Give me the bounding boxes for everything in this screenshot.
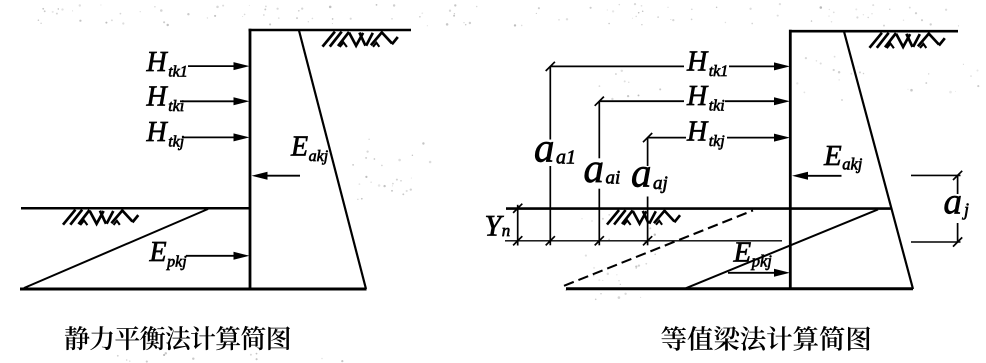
- tick at a_ai top: [595, 97, 604, 106]
- force arrow H_tki (left): [180, 97, 250, 105]
- caption: equivalent beam method diagram: [661, 326, 870, 351]
- right diagram: wall back (right) slanted edge: [844, 32, 913, 290]
- force arrow H_tkj (left): [182, 133, 250, 141]
- left diagram: ground hatching (top right): [323, 32, 398, 47]
- dimension line a_a1 (upper segment): [549, 66, 551, 139]
- right diagram: H_tki application line: [599, 100, 684, 102]
- dimension line Y_n: [517, 205, 519, 246]
- svg-text:Htki: Htki: [686, 81, 725, 115]
- right diagram: ground hatching (top right): [870, 33, 945, 48]
- right diagram: H_tk1 application line: [550, 65, 684, 67]
- dimension line a_a1 (lower segment): [549, 166, 551, 245]
- svg-text:Epkj: Epkj: [149, 237, 188, 271]
- tick at a_j bottom: [953, 237, 962, 246]
- scan noise: mid right band: [599, 70, 692, 101]
- scan noise: top band: [38, 3, 959, 27]
- svg-text:Htk1: Htk1: [146, 47, 188, 81]
- right diagram: excavation base line: [506, 207, 891, 210]
- right diagram: bottom boundary line: [566, 287, 913, 290]
- right diagram: slip line (dashed): [564, 210, 753, 285]
- scan noise: center lower: [565, 214, 656, 300]
- left diagram: bottom boundary line: [20, 288, 367, 291]
- a_j dimension: top extension line: [911, 174, 961, 176]
- force arrow E_akj (right, pointing left): [792, 172, 842, 180]
- tick at a_a1 top: [546, 62, 555, 71]
- svg-text:Htki: Htki: [146, 82, 185, 116]
- svg-text:Eakj: Eakj: [823, 140, 863, 174]
- right diagram: passive slip line (solid): [686, 209, 878, 288]
- left diagram: ground surface line (top): [249, 29, 412, 32]
- force arrow E_akj (left, pointing left): [252, 172, 301, 180]
- svg-text:aaj: aaj: [631, 150, 668, 196]
- svg-text:aj: aj: [944, 182, 970, 223]
- right diagram: ground hatching (excavation side): [607, 210, 680, 225]
- left diagram: ground hatching (excavation side): [63, 210, 138, 225]
- dimension line a_ai (upper segment): [598, 101, 600, 158]
- left diagram: wall front (left) edge: [249, 29, 252, 290]
- right diagram: H_tkj application line: [648, 137, 686, 139]
- caption: static equilibrium method diagram: [65, 326, 290, 350]
- svg-text:Epkj: Epkj: [733, 237, 773, 271]
- tick at a_aj bottom: [643, 236, 652, 245]
- force arrow H_tki (right): [725, 97, 790, 105]
- scan noise: right upper: [796, 56, 864, 101]
- tick at a_aj top: [643, 133, 652, 142]
- force arrow H_tkj (right): [727, 134, 790, 142]
- svg-text:Yn: Yn: [485, 209, 511, 242]
- scan noise: bottom left strip: [117, 352, 343, 363]
- dimension line a_ai (lower segment): [598, 189, 600, 246]
- svg-text:Htkj: Htkj: [146, 117, 185, 151]
- tick at Y_n bottom: [513, 236, 522, 245]
- svg-text:Htk1: Htk1: [686, 47, 728, 81]
- tick at Y_n top: [513, 204, 522, 213]
- a_j dimension line (lower segment): [957, 223, 959, 242]
- svg-text:aai: aai: [584, 145, 621, 191]
- dimension line a_aj (upper segment): [647, 138, 649, 166]
- svg-text:Eakj: Eakj: [290, 132, 329, 165]
- force arrow H_tk1 (right): [729, 62, 790, 70]
- left diagram: wall back (right) slanted edge: [299, 31, 366, 290]
- force arrow E_pkj (right, pointing right): [728, 269, 790, 277]
- svg-text:aa1: aa1: [534, 125, 576, 171]
- left diagram: excavation base line: [21, 207, 251, 210]
- tick at a_a1 bottom: [546, 236, 555, 245]
- svg-text:Htkj: Htkj: [686, 117, 725, 151]
- right diagram: equivalent-beam support level line: [505, 240, 782, 242]
- left diagram: passive slip line: [24, 209, 208, 288]
- scan noise: left mid: [352, 139, 431, 200]
- dimension line a_aj (lower segment): [647, 197, 649, 246]
- a_j dimension line (upper segment): [957, 175, 959, 194]
- a_j dimension: bottom extension line: [911, 241, 961, 243]
- tick at a_ai bottom: [595, 236, 604, 245]
- tick at a_j top: [953, 171, 962, 180]
- scan noise: far right top: [907, 64, 979, 94]
- force arrow H_tk1 (left): [188, 62, 250, 70]
- force arrow E_pkj (left, pointing right): [186, 252, 250, 260]
- right diagram: wall front (left) edge: [789, 30, 792, 290]
- right diagram: ground surface line (top): [789, 30, 958, 33]
